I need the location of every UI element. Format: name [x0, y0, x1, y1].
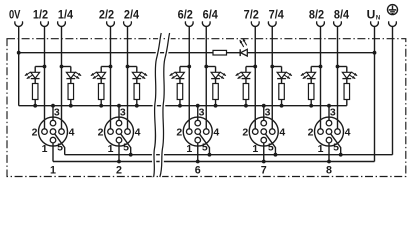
svg-text:2: 2	[32, 126, 38, 138]
svg-text:1/4: 1/4	[58, 7, 73, 21]
svg-text:2/2: 2/2	[99, 7, 114, 21]
svg-text:3: 3	[120, 107, 126, 119]
svg-text:4: 4	[135, 126, 141, 138]
svg-text:2: 2	[308, 126, 314, 138]
svg-text:4: 4	[345, 126, 351, 138]
svg-text:8: 8	[326, 165, 332, 177]
svg-text:1: 1	[186, 143, 192, 155]
svg-text:6/2: 6/2	[178, 7, 193, 21]
svg-text:5: 5	[202, 141, 208, 153]
svg-text:7/4: 7/4	[269, 7, 284, 21]
svg-text:1: 1	[318, 143, 324, 155]
svg-text:5: 5	[57, 141, 63, 153]
svg-text:5: 5	[268, 141, 274, 153]
svg-text:2: 2	[176, 126, 182, 138]
svg-text:1/2: 1/2	[33, 7, 48, 21]
svg-text:2/4: 2/4	[124, 7, 139, 21]
svg-text:2: 2	[98, 126, 104, 138]
svg-text:4: 4	[213, 126, 219, 138]
svg-text:1: 1	[50, 165, 56, 177]
svg-text:6/4: 6/4	[203, 7, 218, 21]
svg-text:6: 6	[195, 165, 201, 177]
svg-text:4: 4	[279, 126, 285, 138]
svg-text:N: N	[376, 15, 380, 21]
svg-text:U: U	[367, 7, 376, 21]
svg-text:0V: 0V	[9, 7, 21, 21]
svg-text:5: 5	[333, 141, 339, 153]
svg-text:8/4: 8/4	[334, 7, 349, 21]
svg-text:7: 7	[261, 165, 267, 177]
svg-text:8/2: 8/2	[309, 7, 324, 21]
svg-text:1: 1	[252, 143, 258, 155]
svg-text:3: 3	[199, 107, 205, 119]
svg-text:3: 3	[330, 107, 336, 119]
svg-text:5: 5	[123, 141, 129, 153]
svg-text:3: 3	[265, 107, 271, 119]
svg-text:2: 2	[242, 126, 248, 138]
svg-text:1: 1	[42, 143, 48, 155]
svg-text:3: 3	[54, 107, 60, 119]
svg-text:4: 4	[69, 126, 75, 138]
svg-text:1: 1	[108, 143, 114, 155]
svg-text:2: 2	[116, 165, 122, 177]
svg-text:7/2: 7/2	[244, 7, 259, 21]
